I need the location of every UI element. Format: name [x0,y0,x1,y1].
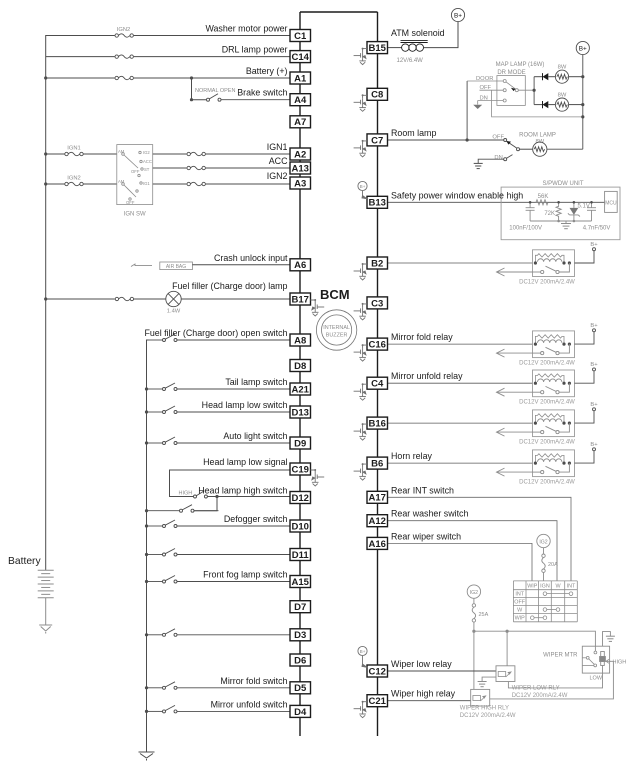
mirror unfold switch [147,705,291,713]
svg-text:OFF: OFF [126,200,135,205]
label HIGH with arrow [606,659,611,663]
horn relay coil terminals [534,462,571,465]
relay (B16) contact switch [533,423,570,434]
wire battery to ground [45,598,47,625]
output driver for C3 [354,304,367,320]
svg-text:A1: A1 [294,73,307,84]
svg-text:D12: D12 [291,493,308,504]
wire A12 rear washer switch row [388,521,558,581]
ignition switch IGN SW [117,145,153,205]
mirror fold switch [147,682,291,690]
junction on rail for tail lamp switch [145,387,148,390]
svg-text:Head lamp high switch: Head lamp high switch [198,486,287,496]
output driver for C4 [354,384,367,400]
wire C12 to wiper low relay [388,670,497,672]
room switch blade arrowhead [506,141,511,145]
svg-text:D4: D4 [294,707,307,718]
wiper motor internal switch [582,656,596,666]
relay (B2) coil [538,259,562,262]
wire door-mode branch [466,81,468,140]
svg-text:A7: A7 [294,117,306,128]
svg-text:ST: ST [144,167,150,172]
wire C7 room lamp row [388,139,504,141]
fuse on battery row [115,77,134,80]
svg-text:B+: B+ [454,12,462,19]
head lamp high switch (from C19) [194,491,291,498]
wiper motor armature [600,652,606,674]
wire C21 to wiper high relay [388,700,471,702]
junction on unit ground rail [573,220,576,223]
connector pin D13 [290,406,311,418]
wire B2 to relay [388,262,533,264]
svg-text:WIPER HIGH RLY: WIPER HIGH RLY [460,706,509,712]
svg-text:INTERNAL: INTERNAL [323,325,350,331]
ground at wiper motor supply [606,636,615,641]
fuse IGN1 output [187,153,206,156]
wire lamp to B+ rail [569,104,583,106]
connector pin A4 [290,94,311,106]
wire Battery(+) row [46,77,290,79]
matrix contacts WIP row [531,616,547,620]
junction on unit ground rail [557,220,560,223]
wire B6 to relay [388,462,533,464]
matrix contacts W row [543,608,560,612]
junction on B13 row [557,201,560,204]
svg-text:ROOM LAMP: ROOM LAMP [519,133,556,139]
svg-text:Rear washer switch: Rear washer switch [391,509,468,519]
wiper high relay box [471,689,490,706]
map lamp bulb [555,70,568,83]
diode for map lamp [543,73,549,80]
svg-text:Mirror unfold switch: Mirror unfold switch [211,699,288,709]
svg-text:DC12V 200mA/2.4W: DC12V 200mA/2.4W [519,400,575,406]
wire low relay output to motor LOW [508,673,602,688]
wiper motor feed terminal [594,651,597,654]
svg-text:S/PWDW UNIT: S/PWDW UNIT [543,181,584,187]
B+ rail vertical (map/room lamps) [582,55,584,150]
svg-text:Wiper high relay: Wiper high relay [391,689,456,699]
svg-text:IGN2: IGN2 [267,171,288,181]
wire pole to room lamp [520,148,533,150]
output driver for B17 [311,300,325,316]
connector pin C12 [367,665,388,677]
svg-text:IGN: IGN [540,583,550,589]
svg-text:Mirror unfold relay: Mirror unfold relay [391,371,463,381]
junction battery rail / A1 row [44,76,47,79]
svg-text:20A: 20A [548,562,558,568]
svg-text:C14: C14 [291,52,309,63]
svg-text:Brake switch: Brake switch [237,88,287,98]
svg-text:INT: INT [515,592,524,598]
svg-text:1.4W: 1.4W [167,309,181,315]
fuel filler (charge door) open switch [147,334,291,342]
B+ terminal above map lamps [576,41,589,54]
wire B15 to solenoid [388,47,402,49]
svg-text:IG2: IG2 [470,590,478,596]
svg-text:A17: A17 [368,493,385,504]
fuse fuel filler lamp [115,298,134,301]
resistor 56K [536,200,548,205]
wire ACC fuse to pin [206,167,290,169]
connector pin C21 [367,695,388,707]
wire rail to IGN2 fuse [46,183,65,185]
wire fuse to wiper switch matrix [543,573,545,581]
svg-text:B6: B6 [371,459,383,470]
svg-text:Wiper low relay: Wiper low relay [391,659,452,669]
svg-text:ACC: ACC [143,159,152,164]
connector pin D6 [290,654,311,666]
svg-text:Room lamp: Room lamp [391,128,436,138]
mirror fold relay coil [538,340,562,343]
wire IGN1 fuse to IGN SW [84,153,117,155]
ATM solenoid coil [401,41,428,52]
mirror unfold relay coil box [533,370,575,397]
connector pin D10 [290,520,311,532]
connector pin A17 [367,491,388,503]
head lamp low switch [147,406,291,414]
svg-text:DC12V 200mA/2.4W: DC12V 200mA/2.4W [460,713,516,719]
connector pin C19 [290,463,311,475]
connector pin B13 [367,196,388,208]
junction on rail for head lamp low switch [145,410,148,413]
room lamp bulb [533,142,547,156]
junction A1 row / brake branch [190,76,193,79]
svg-text:AIR BAG: AIR BAG [166,264,186,270]
svg-text:AM: AM [118,179,125,184]
MCU box [605,191,618,212]
wire high relay output to motor HIGH [490,661,614,699]
relay (B2) coil terminals [534,261,571,264]
top link wire between buses [300,11,378,13]
svg-text:D11: D11 [292,550,310,561]
room lamp DN contact [478,155,512,164]
fuse (IGN2) on washer motor row [115,34,134,37]
svg-text:DOOR: DOOR [476,76,493,82]
junction on rail for switch to D3 [145,633,148,636]
svg-text:C3: C3 [371,298,383,309]
wire diode to lamp [548,76,555,78]
wire rail to IGN1 fuse [46,153,65,155]
connector pin A6 [290,259,311,271]
svg-text:IGN2: IGN2 [117,27,131,33]
junction rail / fuel filler row [44,297,47,300]
ground at wiper low relay [478,682,487,687]
connector pin C1 [290,30,311,42]
ground below battery [39,625,52,634]
wire 25A fuse to wiper feed bus [473,622,475,631]
horn relay coil box [533,450,575,477]
head lamp high switch (from rail) [147,505,291,513]
svg-text:ATM solenoid: ATM solenoid [391,28,445,38]
svg-text:WIPER LOW RLY: WIPER LOW RLY [512,686,560,692]
svg-text:IGN2: IGN2 [67,176,81,182]
internal buzzer [316,310,356,350]
wire C4 to relay [388,382,533,384]
svg-text:MCU: MCU [605,200,617,206]
svg-text:B+: B+ [590,442,598,448]
wire IGN2 fuse to IGN SW [84,183,117,185]
junction on B13 row [529,201,532,204]
svg-text:B+: B+ [590,402,598,408]
svg-text:Fuel filler (Charge door) lamp: Fuel filler (Charge door) lamp [172,281,287,291]
connector pin D4 [290,705,311,717]
switch to D3 [147,629,291,637]
wire map switch pole to lamps [518,89,534,91]
svg-text:C21: C21 [368,696,386,707]
ground at room lamp DN [474,163,483,168]
tail lamp switch [147,383,291,391]
wire A16 rear wiper switch row [388,543,533,581]
svg-text:Defogger switch: Defogger switch [224,514,288,524]
output driver for C19 [311,470,325,486]
svg-text:IG2: IG2 [143,150,150,155]
mirror unfold relay output arrow [497,388,533,396]
wire rail high-switch branch up to D12 node [219,505,294,516]
fuse 20A [542,554,545,572]
wire IGN SW to ACC fuse [153,167,187,169]
svg-text:Rear wiper switch: Rear wiper switch [391,531,461,541]
junction rail / IGN2 row [44,182,47,185]
wire IGN2 fuse to pin [206,183,290,185]
svg-text:DC12V 200mA/2.4W: DC12V 200mA/2.4W [519,480,575,486]
output driver for C16 [354,345,367,361]
connector pin B6 [367,457,388,469]
resistor 72K (vertical) [556,202,561,221]
svg-text:C4: C4 [371,379,384,390]
svg-text:Front fog lamp switch: Front fog lamp switch [203,570,287,580]
wire C19 loop to HIGH switch [170,470,291,497]
mirror fold relay B+ supply [575,329,596,344]
wire A17 rear INT switch row [388,497,572,581]
svg-text:C16: C16 [368,340,385,351]
ground stub of wiper low relay [482,677,496,681]
svg-text:B+: B+ [360,649,366,654]
capacitor 100nF/100V [526,202,535,221]
relay (B2) B+ supply [575,248,596,263]
relay (B16) coil terminals [534,422,571,425]
connector pin C14 [290,51,311,63]
svg-text:C12: C12 [368,666,385,677]
junction return / B+ rail [581,115,584,118]
AIR BAG unit box [160,262,193,270]
svg-text:Crash unlock input: Crash unlock input [214,253,288,263]
junction on rail for switch to D11 [145,553,148,556]
BCM right bus wire [377,12,379,736]
connector pin B15 [367,42,388,54]
svg-text:D5: D5 [294,683,307,694]
svg-text:OFF: OFF [514,600,525,606]
map lamp DR MODE switch box [497,76,525,106]
WIPER MTR box [582,646,609,673]
fuse IGN1 [65,153,84,156]
auto light switch [147,437,291,445]
mirror fold relay internal resistor [535,335,564,344]
svg-text:DN: DN [480,96,488,102]
svg-text:Fuel filler (Charge door) open: Fuel filler (Charge door) open switch [144,328,287,338]
front fog lamp switch [147,576,291,584]
ground (filled) at map lamp DN [473,105,482,109]
connector pin D11 [290,549,311,561]
connector pin C4 [367,377,388,389]
horn relay internal resistor [535,454,564,463]
svg-text:WIP: WIP [515,616,526,622]
svg-text:W: W [555,583,561,589]
connector pin A21 [290,383,311,395]
svg-text:12V/6.4W: 12V/6.4W [397,58,424,64]
svg-text:IG2: IG2 [539,539,547,545]
svg-text:B+: B+ [590,242,598,248]
svg-text:ACC: ACC [269,156,288,166]
svg-text:D13: D13 [291,407,308,418]
wire IG2 to 25A fuse [473,598,475,603]
mirror fold relay coil terminals [534,343,571,346]
wire C16 to relay [388,343,533,345]
wire battery row to brake switch [192,78,207,100]
svg-text:Tail lamp switch: Tail lamp switch [225,377,287,387]
battery positive rail wire [46,36,290,571]
svg-text:WIP: WIP [527,583,538,589]
junction on B13 row [590,201,593,204]
svg-text:HIGH: HIGH [613,660,627,666]
wire IGN SW to IGN2 fuse [153,183,187,185]
S/PWDW UNIT box [501,187,620,240]
output driver for C8 [354,95,367,111]
junction feed bus / high relay branch [472,630,475,633]
wire DN to ground (map) [477,101,479,105]
relay (B16) output arrow [497,428,533,436]
svg-text:D6: D6 [294,655,306,666]
brake switch (normally open) [207,94,291,102]
relay (B2) contact switch [533,263,570,274]
mirror unfold relay internal resistor [535,374,564,383]
svg-text:A12: A12 [368,516,385,527]
svg-text:OFF: OFF [492,135,504,141]
connector pin A3 [290,177,311,189]
relay (B2) internal resistor [535,254,564,263]
wiper low relay box [496,666,515,682]
relay (B16) B+ supply [575,408,596,423]
wire diode to lamp [548,104,555,106]
svg-text:D10: D10 [291,521,308,532]
zener diode 5.1V [568,202,580,221]
svg-text:B+: B+ [590,362,598,368]
junction on rail for auto light switch [145,441,148,444]
svg-text:C19: C19 [291,464,308,475]
connector pin B17 [290,293,311,305]
svg-text:BCM: BCM [320,287,350,302]
fuse IGN2 [65,183,84,186]
wire fuse to fuel filler lamp [134,298,166,300]
svg-text:Mirror fold switch: Mirror fold switch [220,676,287,686]
junction rail / IGN1 row [44,152,47,155]
svg-text:Battery: Battery [8,556,41,567]
svg-text:Safety power window enable hig: Safety power window enable high [391,190,523,200]
fuse IGN2 output [187,183,206,186]
junction on rail for mirror fold switch [145,686,148,689]
junction head lamp high node [215,495,218,498]
svg-text:D8: D8 [294,361,306,372]
svg-text:Mirror fold relay: Mirror fold relay [391,332,453,342]
svg-text:B13: B13 [368,198,385,209]
output driver for B16 [354,424,367,440]
svg-text:A21: A21 [291,384,309,395]
fuse 25A [472,604,475,622]
output driver for C21 [354,702,367,718]
junction on rail for mirror unfold switch [145,710,148,713]
junction lamp / B+ rail [581,103,584,106]
junction brake branch corner [190,98,193,101]
wire lamp to B+ rail [569,76,583,78]
svg-text:NORMAL OPEN: NORMAL OPEN [195,88,235,94]
connector pin D8 [290,360,311,372]
output driver for B6 [354,464,367,480]
B+ terminal above ATM solenoid [451,8,464,21]
wiper low relay internals [498,672,511,678]
fuse ACC output [187,167,206,170]
mirror fold relay output arrow [497,349,533,357]
wire room lamp to B+ rail [547,148,583,150]
switch to D11 [147,549,291,557]
relay (B16) internal resistor [535,414,564,423]
labels DOOR OFF DN [476,76,493,102]
svg-text:DN: DN [494,155,502,161]
matrix contacts INT row [543,592,573,596]
map switch blade arrowhead [511,88,516,91]
svg-text:A2: A2 [294,149,306,160]
svg-text:OFF: OFF [480,85,492,91]
horn relay coil [538,459,562,462]
fuse on DRL lamp row [115,55,134,58]
connector pin A2 [290,148,311,160]
wire feed to low relay [506,631,508,666]
wire airbag stub [131,264,152,267]
connector pin C8 [367,88,388,100]
battery cell stack [38,570,54,598]
svg-text:72K: 72K [544,211,555,217]
wire to map lamp diode [534,104,542,106]
wiper feed bus wire [474,631,596,651]
connector pin C7 [367,134,388,146]
connector pin A12 [367,515,388,527]
junction feed bus / low relay branch [506,630,509,633]
wire ground stub S/PWDW [565,221,567,224]
fuel filler (charge door) lamp [166,291,181,306]
mirror fold relay contact switch [533,344,570,355]
svg-text:C7: C7 [371,135,383,146]
svg-text:DC12V 200mA/2.4W: DC12V 200mA/2.4W [519,280,575,286]
svg-text:B+: B+ [590,323,598,329]
connector pin A7 [290,116,311,128]
svg-text:Head lamp low signal: Head lamp low signal [203,457,287,467]
relay (B16) coil [538,419,562,422]
wire IGN1 fuse to pin [206,153,290,155]
svg-text:A15: A15 [291,577,309,588]
svg-text:DRL lamp power: DRL lamp power [222,45,288,55]
wire to map lamp diode [534,76,542,78]
capacitor 4.7nF/50V [587,202,596,221]
svg-text:DC12V 200mA/2.4W: DC12V 200mA/2.4W [519,361,575,367]
wire B16 to relay [388,422,533,424]
wire OFF branch down to B+ return [492,90,582,117]
svg-text:A4: A4 [294,95,307,106]
svg-text:8W: 8W [558,65,567,71]
ground at bottom of switch rail [139,752,155,761]
connector pin B2 [367,257,388,269]
IGN SW terminal labels [118,149,152,205]
wire feed to high relay [473,631,475,689]
switch common rail wire [147,340,149,752]
svg-text:56K: 56K [538,194,549,200]
